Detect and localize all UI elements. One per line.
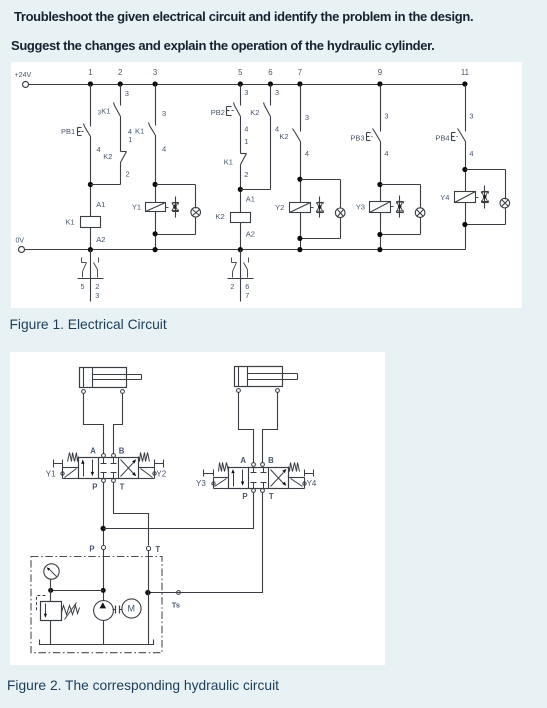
svg-text:4: 4 xyxy=(384,149,388,158)
wire rung 11 upper xyxy=(465,85,467,132)
wire rung 2 upper xyxy=(121,85,129,106)
pipe cylinder 1 A-side xyxy=(84,394,104,454)
solenoid Y2 xyxy=(139,460,167,479)
svg-text:P: P xyxy=(92,482,97,491)
power unit port T xyxy=(146,545,160,554)
svg-text:7: 7 xyxy=(298,68,302,77)
svg-text:K1: K1 xyxy=(224,158,233,167)
svg-text:3: 3 xyxy=(384,112,388,121)
wire rung 6 upper xyxy=(271,85,280,106)
svg-text:Y3: Y3 xyxy=(196,479,206,488)
valve right box crossed arrows xyxy=(121,459,137,476)
svg-text:6: 6 xyxy=(268,68,272,77)
suppressor diode Y2 xyxy=(317,197,324,218)
pushbutton PB2 xyxy=(211,103,249,134)
pump xyxy=(94,601,114,621)
node P gauge branch xyxy=(101,588,106,593)
svg-text:3: 3 xyxy=(244,88,248,97)
figure 1 white panel xyxy=(11,62,522,308)
node 0V rung 1 xyxy=(88,247,93,252)
wire rung 1 lower xyxy=(90,137,92,217)
svg-text:2: 2 xyxy=(95,282,99,291)
svg-text:K1: K1 xyxy=(135,127,144,136)
valve body (Y3/Y4) xyxy=(229,468,289,489)
svg-text:11: 11 xyxy=(461,68,469,77)
solenoid Y3 xyxy=(196,470,229,489)
svg-text:+24V: +24V xyxy=(15,72,32,79)
wire K1 to 0V xyxy=(90,228,92,250)
svg-text:Y1: Y1 xyxy=(132,202,141,211)
indicator lamp Y1 xyxy=(191,207,201,217)
suppressor diode Y3 xyxy=(397,196,404,218)
wire branch bottom xyxy=(156,218,196,235)
svg-text:A2: A2 xyxy=(96,235,105,244)
svg-text:Y3: Y3 xyxy=(356,203,365,212)
valve V2 port B xyxy=(261,456,275,466)
svg-text:Ts: Ts xyxy=(172,600,180,609)
node P branch xyxy=(101,526,106,531)
cylinder 2 piston rod xyxy=(248,374,298,380)
node branch top xyxy=(153,182,158,187)
svg-text:4: 4 xyxy=(305,149,309,158)
cylinder 2 body xyxy=(235,367,283,387)
svg-text:7: 7 xyxy=(245,291,249,300)
pipe gauge/relief branch xyxy=(51,590,104,592)
svg-text:1: 1 xyxy=(88,68,92,77)
node rail rung 6 xyxy=(268,81,273,86)
suppressor diode Y1 xyxy=(172,197,179,218)
node 0V rung 7 xyxy=(297,247,302,252)
relief valve pilot line (dashed) xyxy=(37,596,46,611)
node branch bottom xyxy=(297,236,302,241)
svg-text:5: 5 xyxy=(238,68,243,77)
svg-text:2: 2 xyxy=(126,170,130,179)
svg-text:Y2: Y2 xyxy=(156,470,166,479)
wire rung feed xyxy=(380,142,382,202)
svg-text:3: 3 xyxy=(305,113,309,122)
node rail rung 5 xyxy=(238,81,243,86)
pipe pump to tank xyxy=(103,621,105,645)
svg-text:6: 6 xyxy=(245,282,249,291)
svg-text:T: T xyxy=(269,492,274,501)
0V terminal xyxy=(16,237,25,252)
svg-text:4: 4 xyxy=(97,145,101,154)
svg-text:B: B xyxy=(119,446,125,455)
pipe to relief valve xyxy=(50,591,52,602)
svg-text:M: M xyxy=(128,604,136,614)
valve V1 port A xyxy=(90,446,105,457)
svg-text:T: T xyxy=(155,545,160,554)
cylinder 1 port left xyxy=(82,390,86,394)
node 0V rung 3 xyxy=(153,247,158,252)
pressure gauge xyxy=(44,564,59,591)
cylinder 1 body xyxy=(80,368,127,388)
cylinder 2 port left xyxy=(237,389,241,393)
cylinder 1 piston rod xyxy=(93,375,142,380)
wire rung feed xyxy=(300,142,302,203)
node branch bottom xyxy=(377,232,382,237)
svg-text:Y2: Y2 xyxy=(275,203,284,212)
pipe cylinder 2 A-side xyxy=(239,393,254,463)
node rail rung 11 xyxy=(462,81,467,86)
solenoid Y4 xyxy=(289,470,317,489)
wire coil to 0V xyxy=(155,212,157,250)
solenoid Y1 xyxy=(46,460,79,479)
valve V1 port T xyxy=(112,479,125,492)
svg-text:3: 3 xyxy=(95,291,99,300)
test point Ts xyxy=(172,591,181,610)
wire rung 2 jog to rung 1 xyxy=(91,184,121,186)
valve left box arrows xyxy=(231,469,244,486)
indicator lamp Y4 xyxy=(500,198,510,208)
heading line 1 xyxy=(14,9,473,24)
node 0V rung 9 xyxy=(377,247,382,252)
svg-text:3: 3 xyxy=(469,112,473,121)
wire K2 to 0V xyxy=(240,223,242,250)
svg-text:T: T xyxy=(120,482,125,491)
wire rung 9 upper xyxy=(380,85,382,132)
contact K1 NO rung 2 xyxy=(98,103,132,136)
contact reference table wire xyxy=(240,250,242,302)
wire rung feed xyxy=(465,142,467,192)
coil K1 xyxy=(66,200,106,244)
wire rung 2 middle xyxy=(121,117,133,152)
wire branch top xyxy=(381,185,421,209)
svg-text:2: 2 xyxy=(118,68,122,77)
valve spring right xyxy=(139,453,150,462)
pipe P from V1 xyxy=(103,483,105,546)
suppressor diode Y4 xyxy=(482,186,489,209)
valve spring right xyxy=(289,463,300,472)
pump-motor coupling xyxy=(113,606,122,614)
cylinder 2 port right xyxy=(276,389,280,393)
contact K1 NC rung 5 xyxy=(224,154,249,180)
wire coil to 0V xyxy=(380,213,382,250)
contact K2 NC rung 2 xyxy=(103,152,129,179)
+24V terminal xyxy=(15,72,32,88)
wire branch top xyxy=(466,170,506,200)
wire rung 6 jog to rung 5 xyxy=(241,189,271,191)
wire branch top xyxy=(301,180,341,209)
svg-text:K1: K1 xyxy=(101,107,110,116)
wire rung 5 upper xyxy=(241,85,249,106)
node rung 1 junction xyxy=(88,182,93,187)
node branch bottom xyxy=(462,222,467,227)
wire coil to 0V xyxy=(465,203,467,250)
wire rung 2 lower xyxy=(120,163,122,185)
svg-text:P: P xyxy=(89,545,94,554)
svg-text:K2: K2 xyxy=(216,212,225,221)
valve center box blocked ports xyxy=(101,458,117,479)
node gauge branch xyxy=(48,588,53,593)
pushbutton PB4 xyxy=(435,112,473,158)
svg-text:PB1: PB1 xyxy=(61,127,75,136)
svg-text:4: 4 xyxy=(469,149,473,158)
relief valve xyxy=(41,602,62,621)
node rail rung 7 xyxy=(297,81,302,86)
valve V2 port P xyxy=(242,489,255,501)
coil Y3 xyxy=(356,202,394,213)
svg-text:PB4: PB4 xyxy=(435,133,449,142)
pipe relief to tank xyxy=(50,621,52,645)
+24V rail wire xyxy=(29,84,466,86)
svg-text:B: B xyxy=(268,456,274,465)
valve right box crossed arrows xyxy=(271,469,287,487)
figure 1 caption xyxy=(10,317,167,332)
power unit port P xyxy=(89,545,105,554)
svg-text:A: A xyxy=(90,446,96,455)
svg-text:2: 2 xyxy=(244,170,248,179)
wire rung 7 upper xyxy=(300,85,302,132)
pipe P branch to V2 xyxy=(104,493,254,529)
contact K2 NO rung 7 xyxy=(279,113,309,158)
coil Y2 xyxy=(275,203,313,213)
contact K2 NO rung 6 xyxy=(250,103,279,134)
pipe cylinder 1 B-side xyxy=(114,394,123,454)
node branch top xyxy=(462,167,467,172)
wire branch bottom xyxy=(466,209,506,225)
valve spring left xyxy=(68,453,79,462)
valve body (Y1/Y2) xyxy=(79,458,139,479)
contact K1 NO rung 3 xyxy=(135,123,166,154)
wire coil to 0V xyxy=(300,213,302,250)
relief valve spring xyxy=(62,603,80,620)
coil Y4 xyxy=(440,192,478,203)
valve V1 port P xyxy=(92,479,105,492)
pipe T from V2 with Ts tap xyxy=(149,493,263,593)
valve center box blocked ports xyxy=(251,468,267,489)
pipe P inside power unit xyxy=(103,550,105,601)
svg-text:9: 9 xyxy=(378,68,382,77)
wire rung 5 lower xyxy=(240,165,242,213)
svg-text:3: 3 xyxy=(275,88,279,97)
pushbutton PB1 xyxy=(61,124,101,154)
node 0V rung 5 xyxy=(238,247,243,252)
svg-text:K2: K2 xyxy=(279,132,288,141)
contact reference table xyxy=(228,258,254,300)
contact reference table xyxy=(78,258,104,300)
valve spring left xyxy=(219,463,229,472)
indicator lamp Y2 xyxy=(335,208,345,218)
valve V1 port B xyxy=(112,446,125,457)
valve V2 port T xyxy=(261,489,274,501)
node rail rung 3 xyxy=(153,81,158,86)
svg-text:3: 3 xyxy=(162,109,166,118)
svg-text:PB2: PB2 xyxy=(211,108,225,117)
svg-text:P: P xyxy=(242,492,247,501)
svg-text:A1: A1 xyxy=(96,200,105,209)
wire branch bottom xyxy=(381,218,421,235)
wire rung 5 middle xyxy=(241,117,249,154)
coil Y1 xyxy=(132,202,169,211)
node rung 5 junction xyxy=(238,187,243,192)
pushbutton PB3 xyxy=(350,112,388,158)
pipe cylinder 2 B-side xyxy=(263,393,278,463)
pipe T inside power unit xyxy=(148,551,150,645)
coil K2 xyxy=(216,195,255,239)
svg-text:1: 1 xyxy=(244,137,248,146)
wire rung 1 upper xyxy=(90,85,92,127)
node T junction xyxy=(145,590,150,595)
tank xyxy=(40,640,154,645)
0V rail wire xyxy=(25,249,466,251)
svg-text:A2: A2 xyxy=(246,229,255,238)
wire numbers xyxy=(88,68,469,77)
valve left box arrows xyxy=(81,460,94,477)
power unit enclosure (dash-dot) xyxy=(31,557,162,653)
svg-text:A: A xyxy=(240,456,246,465)
svg-text:K2: K2 xyxy=(103,152,112,161)
svg-text:1: 1 xyxy=(128,135,132,144)
motor M xyxy=(122,599,141,618)
wire branch bottom xyxy=(301,218,341,239)
svg-text:3: 3 xyxy=(153,68,157,77)
wire rung feed xyxy=(155,136,157,203)
svg-text:5: 5 xyxy=(81,282,85,291)
svg-text:4: 4 xyxy=(244,124,248,133)
node branch top xyxy=(377,182,382,187)
svg-text:PB3: PB3 xyxy=(350,133,364,142)
contact reference table wire xyxy=(90,250,92,302)
heading line 2 xyxy=(11,38,434,53)
svg-text:Y4: Y4 xyxy=(440,193,449,202)
figure 2 caption xyxy=(7,678,279,693)
wire branch top xyxy=(156,185,196,209)
indicator lamp Y3 xyxy=(415,208,425,218)
node rail rung 9 xyxy=(377,81,382,86)
svg-text:0V: 0V xyxy=(16,237,25,244)
figure 2 white panel xyxy=(10,352,385,665)
pipe T from V1 xyxy=(114,483,149,546)
node branch bottom xyxy=(153,231,158,236)
valve V2 port A xyxy=(240,456,255,466)
svg-text:3: 3 xyxy=(125,89,129,98)
svg-text:K2: K2 xyxy=(250,108,259,117)
svg-text:2: 2 xyxy=(230,282,234,291)
svg-text:4: 4 xyxy=(162,144,166,153)
svg-text:K1: K1 xyxy=(66,217,75,226)
node rail rung 2 xyxy=(118,81,123,86)
svg-text:A1: A1 xyxy=(246,195,255,204)
svg-text:Y4: Y4 xyxy=(307,479,317,488)
svg-text:Y1: Y1 xyxy=(46,470,56,479)
wire rung 6 lower xyxy=(270,117,272,190)
cylinder 1 port right xyxy=(121,390,125,394)
wire rung 3 upper xyxy=(156,85,167,126)
node branch top xyxy=(297,177,302,182)
node rail rung 1 xyxy=(88,81,93,86)
